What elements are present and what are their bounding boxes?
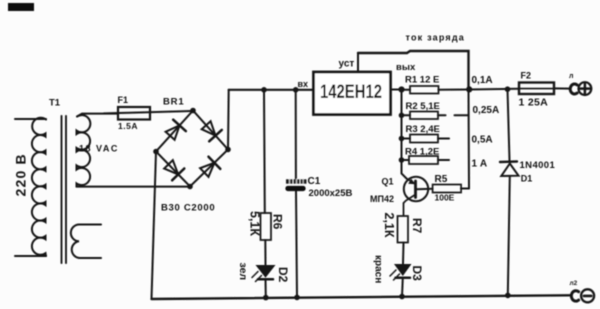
svg-text:2,1К: 2,1К <box>382 213 396 238</box>
node selector top <box>466 86 472 92</box>
node R2 left <box>399 113 405 119</box>
svg-text:R2 5,1Е: R2 5,1Е <box>406 101 440 112</box>
wire top rail to regulator <box>229 89 314 91</box>
svg-text:0,5А: 0,5А <box>472 135 493 146</box>
resistor R7 <box>398 216 409 243</box>
svg-text:красн: красн <box>373 255 384 283</box>
wire F2 to terminal <box>554 87 570 89</box>
node D1 top <box>505 86 511 92</box>
svg-text:BR1: BR1 <box>163 97 184 108</box>
svg-text:1 А: 1 А <box>472 158 488 169</box>
svg-text:л: л <box>569 73 573 80</box>
wire D1 to rail <box>508 176 510 295</box>
svg-text:1 25А: 1 25А <box>519 96 549 108</box>
scan mark <box>8 3 34 11</box>
node bridge right <box>225 147 231 153</box>
svg-text:5,1К: 5,1К <box>247 211 261 236</box>
wire C1 to rail <box>296 191 297 297</box>
node C1 branch <box>293 87 299 93</box>
svg-text:1N4001: 1N4001 <box>520 160 556 171</box>
svg-text:R5: R5 <box>435 174 448 185</box>
wire R7 to D3 <box>402 243 405 264</box>
wire bridge right up <box>227 90 230 150</box>
op-amp U1 regulator 142EH12 box <box>314 72 391 115</box>
node vykh <box>398 86 404 92</box>
wire plus rail to F2 <box>469 88 520 91</box>
svg-text:F2: F2 <box>521 71 532 81</box>
node bridge left <box>153 149 159 155</box>
node C1 rail <box>294 295 300 301</box>
svg-text:220 В: 220 В <box>13 153 29 196</box>
resistor R6 <box>261 213 272 240</box>
wire regulator output <box>392 89 402 91</box>
wire C1 branch top <box>295 90 297 180</box>
wire D2 to rail <box>265 279 267 297</box>
svg-text:D3: D3 <box>410 266 424 282</box>
wire R5 to selector <box>461 188 469 190</box>
node R6 branch <box>261 87 267 93</box>
svg-text:Q1: Q1 <box>382 177 394 187</box>
svg-text:2000х25В: 2000х25В <box>309 188 353 199</box>
wire secondary bottom to bridge <box>77 186 191 188</box>
bridge diode top-left <box>166 120 186 140</box>
svg-text:R7: R7 <box>410 218 424 234</box>
wire tap 0,25A <box>455 114 469 116</box>
wire ust pin <box>357 53 359 72</box>
node D2 rail <box>263 295 269 301</box>
LED D3 <box>394 264 412 276</box>
svg-text:уст: уст <box>339 59 355 70</box>
transformer T1 primary winding <box>32 118 46 256</box>
transformer T1 secondary winding 18VAC <box>77 115 91 187</box>
LED D2 <box>256 265 276 278</box>
svg-text:0,25А: 0,25А <box>473 105 500 116</box>
svg-text:вх: вх <box>298 79 309 89</box>
wire secondary top to F1 <box>77 114 118 117</box>
bridge diode top-right <box>202 121 222 141</box>
wire ladder left bus <box>401 90 403 173</box>
node R4 left <box>399 157 405 163</box>
svg-text:0,1А: 0,1А <box>472 75 493 86</box>
wire second winding top stub <box>80 224 102 226</box>
svg-text:вых: вых <box>396 62 416 73</box>
svg-text:R1 12 Е: R1 12 Е <box>405 74 439 85</box>
svg-text:R3 2,4Е: R3 2,4Е <box>406 124 440 135</box>
capacitor C1 <box>285 179 306 191</box>
svg-text:T1: T1 <box>49 98 61 109</box>
node R3 left <box>399 136 405 142</box>
wire D1 branch top <box>508 89 510 160</box>
svg-text:142ЕН12: 142ЕН12 <box>320 82 382 103</box>
diode D1 <box>500 160 517 163</box>
svg-text:D1: D1 <box>521 174 533 184</box>
wire ust to selector <box>358 51 469 90</box>
svg-text:18 VAC: 18 VAC <box>79 144 119 154</box>
svg-text:D2: D2 <box>276 267 290 283</box>
wire primary top <box>15 118 46 120</box>
svg-text:C1: C1 <box>308 176 321 187</box>
svg-text:л2: л2 <box>570 280 578 287</box>
wire bridge left to bottom rail <box>152 152 157 300</box>
svg-text:100Е: 100Е <box>435 192 455 202</box>
transformer T1 second secondary winding <box>71 224 80 258</box>
wire R6 to D2 <box>264 240 266 265</box>
node bridge bottom <box>187 184 193 190</box>
wire D3 to rail <box>401 278 404 297</box>
node D1 rail <box>505 293 511 299</box>
svg-text:зел: зел <box>237 263 249 281</box>
svg-text:F1: F1 <box>118 95 129 105</box>
wire second winding bottom stub <box>80 257 102 259</box>
node D3 rail <box>399 294 405 300</box>
wire selector vertical <box>468 90 471 189</box>
wire R6 branch <box>263 90 266 213</box>
wire bottom rail <box>152 295 570 299</box>
node bridge top <box>190 108 196 114</box>
transformer core <box>62 116 67 263</box>
svg-text:1.5A: 1.5A <box>118 121 138 131</box>
bridge diode bottom-right <box>200 157 220 177</box>
svg-text:МП42: МП42 <box>370 194 394 204</box>
svg-text:ток заряда: ток заряда <box>406 32 466 42</box>
svg-text:R6: R6 <box>270 214 284 230</box>
wire primary bottom <box>15 255 46 257</box>
svg-text:В30 С2000: В30 С2000 <box>161 203 215 214</box>
bridge edges <box>156 111 228 187</box>
bridge diode bottom-left <box>164 160 184 180</box>
